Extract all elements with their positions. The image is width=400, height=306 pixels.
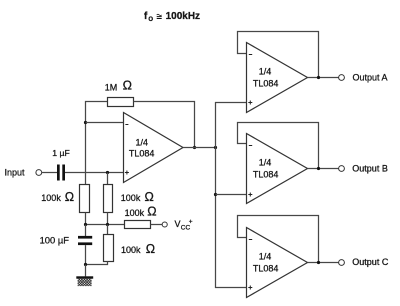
- wire C1 to op-amp + input: [65, 172, 124, 174]
- wire buffer B output: [308, 168, 339, 170]
- wire bus to buffer B + input: [216, 194, 247, 196]
- svg-text:1/4: 1/4: [259, 67, 272, 77]
- node on input wire: [106, 171, 109, 174]
- capacitor C1 1uF: [57, 165, 65, 181]
- svg-text:Output C: Output C: [352, 257, 389, 267]
- wire R2 top lead: [107, 173, 109, 185]
- svg-text:+: +: [189, 219, 193, 226]
- resistor R4 100k vertical bottom: [104, 235, 114, 262]
- svg-text:100k: 100k: [121, 193, 141, 203]
- wire R2 bottom lead: [107, 213, 109, 225]
- svg-text:TL084: TL084: [129, 149, 155, 159]
- svg-text:Output A: Output A: [353, 73, 388, 83]
- bias rail wire: [86, 224, 125, 226]
- svg-text:Output B: Output B: [352, 164, 388, 174]
- svg-text:V: V: [175, 219, 181, 229]
- wire input to C1: [42, 172, 57, 174]
- wire buffer A output: [308, 77, 339, 79]
- svg-text:1/4: 1/4: [259, 252, 272, 262]
- wire C2 top lead: [85, 225, 87, 237]
- input terminal: [36, 170, 42, 176]
- wire 1M left lead and vertical to R1 (crossover of input wire): [86, 102, 108, 185]
- wire buffer C output: [308, 262, 339, 264]
- wire R4 top lead: [107, 225, 109, 235]
- svg-text:CC: CC: [181, 225, 191, 232]
- wire R5 to Vcc terminal: [151, 224, 163, 226]
- node rail right: [106, 223, 109, 226]
- svg-text:Input: Input: [5, 168, 26, 178]
- wire R4 bottom to ground node: [86, 262, 108, 265]
- op-amp U1A input stage: [124, 113, 184, 183]
- node buffer A feedback junction: [317, 76, 320, 79]
- label 100k ohm R4: [121, 242, 155, 256]
- label fO = 100kHz title: [144, 11, 200, 23]
- wire feedback loop buffer C: [238, 216, 319, 263]
- terminal Output B: [339, 166, 345, 172]
- wire bus to buffer A + input: [215, 102, 247, 104]
- svg-text:TL084: TL084: [253, 264, 279, 274]
- op-amp U1B buffer A: [247, 43, 308, 113]
- ground: [76, 276, 93, 286]
- op-amp U1C buffer B: [247, 134, 308, 204]
- node inverting input junction: [84, 121, 87, 124]
- wire 1M right lead down to output node: [134, 102, 195, 148]
- svg-text:100k: 100k: [125, 208, 145, 218]
- resistor R1 100k vertical: [80, 185, 90, 213]
- resistor R2 100k vertical: [104, 185, 113, 213]
- terminal Vcc+: [162, 222, 167, 227]
- node feedback tap on output: [193, 146, 196, 149]
- node buffer B feedback junction: [317, 167, 320, 170]
- svg-text:Ω: Ω: [65, 190, 74, 204]
- wire op-amp output to bus: [183, 147, 216, 149]
- svg-text:TL084: TL084: [253, 170, 279, 180]
- terminal Output A: [339, 75, 345, 81]
- wire bus to buffer C + input: [215, 287, 247, 289]
- capacitor C2 100uF: [78, 236, 92, 245]
- node output bus junction: [214, 146, 217, 149]
- svg-text:100 µF: 100 µF: [40, 234, 70, 245]
- wire C2 bottom lead: [85, 245, 87, 264]
- svg-text:100kHz: 100kHz: [166, 11, 200, 22]
- wire ground lead: [85, 265, 87, 277]
- svg-text:TL084: TL084: [253, 79, 279, 89]
- resistor R3 1M feedback: [108, 98, 134, 107]
- svg-text:f: f: [144, 11, 148, 22]
- label 100k ohm R2: [121, 190, 154, 204]
- svg-text:1 µF: 1 µF: [52, 148, 70, 158]
- svg-text:Ω: Ω: [147, 205, 156, 219]
- wire feedback loop buffer B: [238, 123, 319, 169]
- svg-text:100k: 100k: [41, 193, 61, 203]
- wire distribution bus vertical: [215, 102, 217, 288]
- svg-text:Ω: Ω: [145, 190, 154, 204]
- svg-text:1M: 1M: [105, 82, 118, 92]
- svg-text:Ω: Ω: [146, 242, 155, 256]
- op-amp U1D buffer C: [247, 228, 308, 298]
- wire to inverting input: [86, 122, 124, 124]
- node buffer C feedback junction: [317, 261, 320, 264]
- wire R1 bottom lead: [85, 213, 87, 225]
- node ground junction: [84, 263, 87, 266]
- label Vcc+: [175, 219, 193, 232]
- label 100k ohm R1: [41, 190, 74, 204]
- wire feedback loop buffer A: [238, 32, 319, 78]
- node bus tap B: [214, 193, 217, 196]
- svg-text:O: O: [148, 17, 153, 23]
- resistor R5 100k horizontal: [125, 221, 151, 229]
- node rail left: [84, 223, 87, 226]
- label 1M ohm: [105, 79, 132, 93]
- svg-text:1/4: 1/4: [259, 158, 272, 168]
- svg-text:Ω: Ω: [123, 79, 132, 93]
- terminal Output C: [339, 260, 345, 266]
- svg-text:1/4: 1/4: [135, 138, 148, 148]
- svg-text:100k: 100k: [121, 245, 141, 255]
- label 100k ohm R5: [125, 205, 157, 219]
